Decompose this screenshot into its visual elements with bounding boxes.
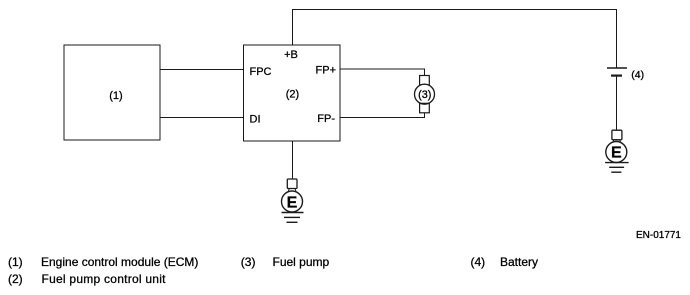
svg-text:E: E: [611, 145, 622, 162]
svg-text:(1): (1): [8, 255, 23, 269]
legend row 1: (1) Engine control module (ECM), (3) Fuel pump, (4) Battery: [8, 255, 538, 269]
svg-text:Engine control module (ECM): Engine control module (ECM): [41, 255, 198, 269]
battery (4): [607, 68, 644, 81]
fuel pump control unit box (2): [244, 45, 341, 141]
svg-text:(1): (1): [109, 90, 122, 102]
svg-text:FP+: FP+: [316, 64, 336, 76]
svg-text:(2): (2): [8, 272, 23, 286]
svg-text:Fuel pump: Fuel pump: [273, 255, 330, 269]
svg-text:(4): (4): [631, 69, 644, 81]
legend row 2: (2) Fuel pump control unit: [8, 272, 166, 286]
wire box2 bottom to ground connector: [292, 141, 294, 179]
svg-text:FP-: FP-: [317, 113, 335, 125]
svg-text:(4): (4): [471, 255, 486, 269]
svg-text:(3): (3): [418, 89, 431, 101]
svg-text:FPC: FPC: [250, 66, 272, 78]
svg-text:E: E: [287, 195, 298, 212]
svg-text:+B: +B: [284, 49, 298, 61]
ground E below battery (connector + circle + ground strokes): [605, 130, 629, 172]
svg-text:(2): (2): [286, 89, 299, 101]
wire FPC: box1 to box2: [160, 69, 244, 71]
wire DI: box1 to box2: [160, 117, 244, 119]
svg-text:Fuel pump control unit: Fuel pump control unit: [42, 272, 167, 286]
wire FP- from fuel pump back to box2: [340, 113, 424, 118]
fuel pump (3): [415, 76, 435, 113]
ground E below box2 (connector + circle + ground strokes): [282, 179, 304, 222]
svg-text:EN-01771: EN-01771: [636, 230, 681, 241]
wire FP+ to fuel pump: [340, 69, 424, 76]
svg-text:(3): (3): [241, 255, 256, 269]
wire +B to battery (top run): [293, 10, 617, 69]
wire battery to ground connector: [616, 77, 618, 131]
svg-text:Battery: Battery: [500, 255, 538, 269]
svg-text:DI: DI: [250, 114, 261, 126]
engine control module ECM box (1): [64, 45, 160, 140]
